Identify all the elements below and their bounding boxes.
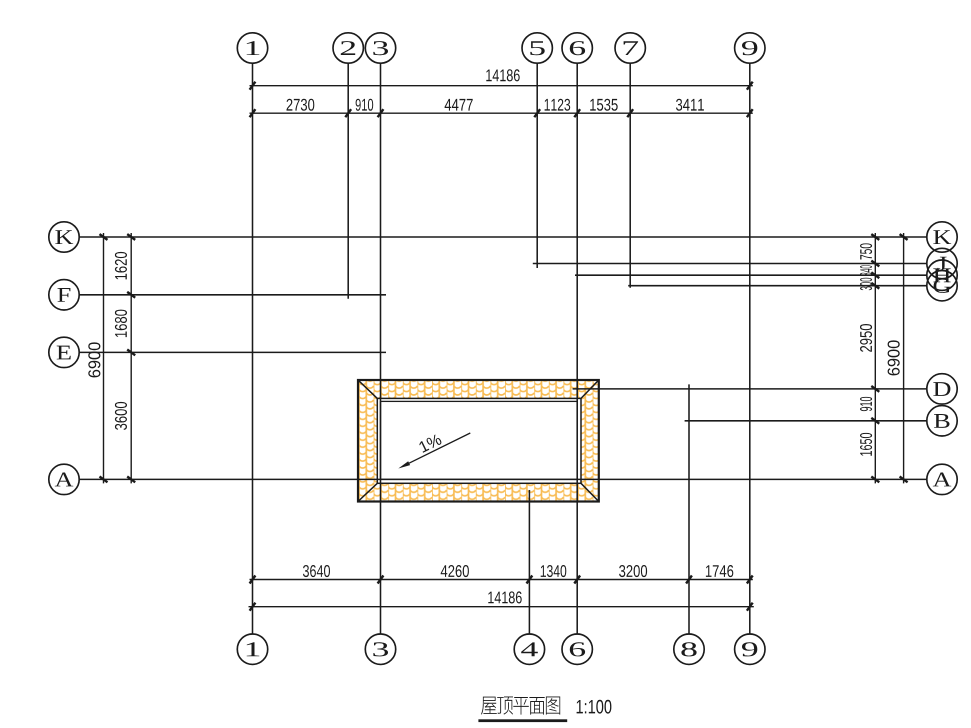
axis bubble J right <box>927 248 957 278</box>
title underline <box>478 719 567 722</box>
grid line axis F horizontal <box>79 294 386 296</box>
dimension text 910 <box>356 99 374 111</box>
roof outer edge rectangle <box>358 380 599 502</box>
axis bubble K left <box>49 222 79 252</box>
dimension text 1680 <box>115 310 127 338</box>
grid line axis G horizontal <box>628 285 927 287</box>
dimension text 1123 <box>545 99 571 111</box>
axis bubble 9 bottom <box>735 634 765 664</box>
axis bubble 6 top <box>562 33 592 63</box>
grid line axis K horizontal <box>79 236 927 238</box>
grid line axis 1 vertical <box>252 63 254 634</box>
top overall dimension line 14186 <box>250 85 753 87</box>
grid line axis E horizontal <box>79 351 386 353</box>
dimension text 750 <box>860 243 872 259</box>
dimension text 1340 <box>541 565 567 577</box>
scale text 1:100 <box>577 700 612 714</box>
grid line axis A horizontal <box>79 478 927 480</box>
axis bubble A right <box>927 464 957 494</box>
dimension text 3200 <box>619 565 647 577</box>
axis bubble K right <box>927 222 957 252</box>
axis bubble 3 bottom <box>365 634 395 664</box>
grid line axis 4 vertical <box>528 490 530 634</box>
axis bubble 3 top <box>365 33 395 63</box>
axis bubble E left <box>49 337 79 367</box>
roof slope arrow 1% <box>405 433 470 465</box>
axis bubble 1 top <box>237 33 267 63</box>
axis bubble 8 bottom <box>674 634 704 664</box>
slope label 1% <box>419 435 441 453</box>
dimension text 3600 <box>115 402 127 430</box>
grid line axis J horizontal <box>533 263 927 265</box>
dimension text 14186 <box>486 69 519 81</box>
axis bubble 4 bottom <box>514 634 544 664</box>
bottom overall dimension line 14186 <box>249 606 754 608</box>
axis bubble D right <box>927 374 957 404</box>
axis bubble 7 top <box>615 33 645 63</box>
dimension text 1650 <box>860 433 872 456</box>
dimension text 340 <box>860 265 872 275</box>
parapet inner rectangle <box>381 401 578 479</box>
axis bubble 6 bottom <box>562 634 592 664</box>
dimension text 14186 <box>488 591 521 603</box>
axis bubble B right <box>927 406 957 436</box>
axis bubble 2 top <box>333 33 363 63</box>
right detail dimension line <box>874 233 876 483</box>
axis bubble A left <box>49 464 79 494</box>
left detail dimension line <box>130 233 132 483</box>
grid line axis 9 vertical <box>749 63 751 634</box>
dimension text 910 <box>860 397 872 411</box>
right overall dimension line 6900 <box>903 233 905 483</box>
dimension text 6900 <box>888 340 900 375</box>
axis bubble G right <box>927 271 957 301</box>
grid line axis 5 vertical <box>536 63 538 268</box>
grid line axis 3 vertical <box>380 63 382 634</box>
parapet outer rectangle <box>377 398 581 483</box>
grid line axis H horizontal <box>575 274 927 276</box>
left overall dimension line 6900 <box>103 233 105 483</box>
dimension text 300 <box>860 278 872 290</box>
dimension text 1746 <box>706 565 733 577</box>
dimension text 6900 <box>88 342 100 377</box>
grid line axis D horizontal <box>573 388 927 390</box>
dimension text 4477 <box>445 99 473 111</box>
dimension text 1535 <box>590 99 618 111</box>
dimension text 4260 <box>441 565 469 577</box>
axis bubble H right <box>927 260 957 290</box>
dimension text 2950 <box>860 324 872 352</box>
top detail dimension line <box>250 112 753 114</box>
dimension text 2730 <box>287 99 315 111</box>
grid line axis B horizontal <box>685 420 927 422</box>
grid line axis 6 vertical <box>576 63 578 634</box>
axis bubble F left <box>49 280 79 310</box>
dimension text 3411 <box>676 99 704 111</box>
roof corner miter lines <box>358 380 599 502</box>
axis bubble 9 top <box>735 33 765 63</box>
dimension text 3640 <box>303 565 330 577</box>
grid line axis 8 vertical <box>688 384 690 634</box>
title 屋顶平面图 (roof plan) glyph paths <box>481 697 497 715</box>
axis bubble 1 bottom <box>237 634 267 664</box>
dimension text 1620 <box>115 252 127 280</box>
roof hatched parapet band (tile hatch) <box>358 380 599 502</box>
axis bubble 5 top <box>522 33 552 63</box>
grid line axis 2 vertical <box>347 63 349 299</box>
bottom detail dimension line <box>250 579 753 581</box>
grid line axis 7 vertical <box>629 63 631 288</box>
